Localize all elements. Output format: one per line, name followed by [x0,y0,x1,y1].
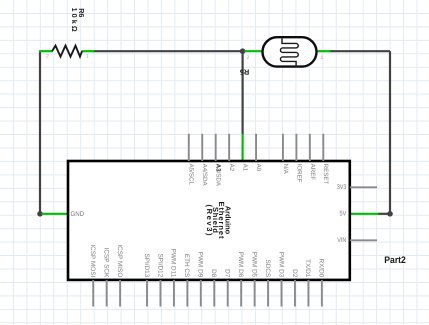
svg-text:GND: GND [71,211,85,218]
svg-text:PWM D5: PWM D5 [250,252,257,278]
shield pin stub A4/SDA (top) [201,134,203,161]
svg-text:RX/D0: RX/D0 [318,258,325,277]
resistor R6 zigzag body [52,46,82,57]
shield pin stub PWM D9 (bottom) [200,280,202,307]
shield pin stub IOREF (top) [295,134,297,161]
photoresistor R5 body (stadium) [263,37,317,66]
wire: horizontal from R5 pin1 to right vertical [330,50,390,52]
svg-text:ICSP MOSI: ICSP MOSI [89,244,96,277]
shield pin stub A5/SCL (top) [188,134,190,161]
svg-text:D2: D2 [291,269,298,278]
svg-text:PWM D3: PWM D3 [277,252,284,278]
shield pin stub AREF (top) [309,134,311,161]
svg-text:10kΩ: 10kΩ [70,8,79,32]
svg-text:5V: 5V [339,210,346,217]
svg-text:VIN: VIN [337,237,346,244]
photoresistor R5 internal meander [280,39,298,66]
wire: left vertical from R6 pin2 down to GND [39,51,41,214]
svg-text:A2: A2 [228,164,235,172]
shield pin stub 3V3 (right) [350,186,377,188]
shield pin stub D8 (bottom) [213,280,215,307]
shield pin stub A2 (top) [228,134,230,161]
svg-text:2: 2 [247,55,250,61]
shield pin stub RESET (top) [322,134,324,161]
svg-text:PWM D9: PWM D9 [197,252,204,278]
shield pin stub D2 (bottom) [294,280,296,307]
wire: vertical drop from junction to shield pin A1 [242,51,244,134]
svg-text:Part2: Part2 [384,255,406,266]
svg-text:ETH CS: ETH CS [183,254,190,277]
svg-text:A0: A0 [255,164,262,172]
resistor R6 10k: green lead pin2 [39,50,53,52]
svg-text:2: 2 [46,54,49,60]
IC U1 Arduino Ethernet Shield body [68,161,350,280]
wire: right vertical down to 5V [389,51,391,214]
photoresistor R5: green lead pin1 [316,50,331,52]
shield pin stub PWM D3 (bottom) [281,280,283,307]
svg-text:ICSP SCK: ICSP SCK [102,248,109,278]
wire: 5V endpoint dot [387,211,393,217]
shield pin stub SDCS (bottom) [267,280,269,307]
shield pin stub ETH CS (bottom) [186,280,188,307]
svg-text:AREF: AREF [309,164,316,181]
svg-text:ICSP MISO: ICSP MISO [116,244,123,277]
svg-text:D8: D8 [210,269,217,278]
shield pin stub N/A (top) [282,134,284,161]
svg-text:A4/SDA: A4/SDA [201,164,208,187]
shield pin stub PWM D6 (bottom) [240,280,242,307]
shield pin stub A3SPECIAL (top) [215,134,217,161]
svg-text:3V3: 3V3 [337,184,347,191]
shield pin stub PWM D5 (bottom) [254,280,256,307]
wire: GND endpoint dot bottom-left [37,211,43,217]
svg-text:1: 1 [86,54,89,60]
svg-text:A1: A1 [242,164,249,172]
wire: short horizontal into 5V stub [378,213,390,215]
svg-text:SPI/D13: SPI/D13 [143,253,150,277]
shield pin stub TX/D1 (bottom) [307,280,309,307]
shield pin stub PWM D11 (bottom) [173,280,175,307]
wire: horizontal from R6 pin1 to node junction [93,50,243,52]
wire: green 5V connection from shield [350,213,379,215]
svg-text:SPI/D12: SPI/D12 [156,253,163,277]
shield pin stub ICSP MOSI (bottom) [92,280,94,307]
svg-text:PWM D6: PWM D6 [237,252,244,278]
svg-text:IOREF: IOREF [295,164,302,183]
shield pin stub D7 (bottom) [227,280,229,307]
svg-text:RESET: RESET [322,164,329,185]
shield pin stub RX/D0 (bottom) [321,280,323,307]
photoresistor R5: green lead pin2 [245,50,264,52]
shield pin stub ICSP MISO (bottom) [119,280,121,307]
svg-text:PWM D11: PWM D11 [170,249,177,278]
svg-text:N/A: N/A [282,164,289,175]
shield pin stub ICSP SCK (bottom) [106,280,108,307]
shield pin stub SPI/D13 (bottom) [146,280,148,307]
shield pin stub SPI/D12 (bottom) [159,280,161,307]
wire: green GND connection into shield [42,213,69,215]
svg-text:R5: R5 [240,68,249,77]
svg-text:D7: D7 [224,269,231,278]
svg-text:A3/SDA: A3/SDA [215,164,222,187]
pin stub A1 (green, connected) [242,134,244,161]
resistor R6 10k: green lead pin1 [82,50,95,52]
shield pin stub VIN (right) [350,239,377,241]
node junction (wire tee at R5 pin 2) [240,48,246,54]
svg-text:SDCS: SDCS [264,260,271,278]
shield pin stub A0 (top) [255,134,257,161]
svg-text:1: 1 [321,55,324,61]
svg-text:A5/SCL: A5/SCL [188,164,195,186]
svg-text:TX/D1: TX/D1 [304,259,311,278]
